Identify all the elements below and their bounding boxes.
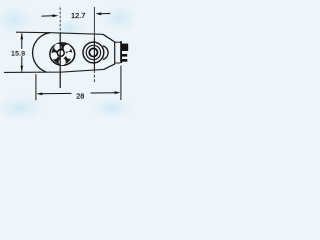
body left rounded end cap <box>33 33 50 72</box>
connector block bottom line <box>115 62 121 64</box>
center line of left circle (dashed above body) <box>59 7 61 33</box>
center line of right circle (solid through body) <box>93 38 95 70</box>
dim text 15.8 background <box>10 49 26 56</box>
body bottom-right chamfer <box>104 64 115 69</box>
svg-text:12.7: 12.7 <box>71 11 85 20</box>
dim 15.8 up arrow <box>21 33 24 39</box>
dim 12.7 left arrow <box>42 15 54 17</box>
terminal pin 2 <box>122 54 127 57</box>
center line of left circle (solid through body) <box>59 33 61 88</box>
connector block top line <box>115 41 121 43</box>
dim 28 left extension line <box>35 74 37 100</box>
body top-right chamfer <box>103 34 115 42</box>
dim 12.7 right arrow <box>95 12 101 15</box>
terminal pin 1 (wide) <box>122 44 128 51</box>
center line of right circle (below body) <box>93 70 95 82</box>
left feature: dark wheel ring with 5 holes <box>52 44 73 65</box>
body top edge with 15.8 top extension <box>16 32 103 34</box>
svg-text:28: 28 <box>76 91 84 100</box>
right feature: concentric circle 2 <box>86 45 100 59</box>
right feature: concentric circle 3 (bold) <box>89 48 97 56</box>
center line of right circle (dashed above body) <box>93 7 95 38</box>
connector vertical bar <box>120 41 122 63</box>
dim 28 left arrow + line <box>36 93 42 96</box>
dim 15.8 vertical line <box>21 33 23 71</box>
small arc right of knob <box>103 46 108 60</box>
svg-text:15.8: 15.8 <box>11 51 25 58</box>
right feature: concentric circle 1 <box>83 42 104 63</box>
paper background <box>0 0 133 119</box>
dim 15.8 down arrow <box>21 66 24 72</box>
dim 28 right arrow + line <box>91 92 116 94</box>
body bottom edge with 15.8 bottom extension <box>4 69 104 72</box>
left feature: center ring <box>57 49 64 56</box>
terminal pin 3 <box>122 59 127 62</box>
left feature: outer circle <box>50 43 75 65</box>
body right edge <box>114 42 116 65</box>
dim 28 right extension line <box>120 66 122 101</box>
